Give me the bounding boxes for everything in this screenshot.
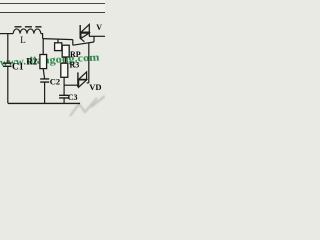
svg-text:C1: C1 [12,63,24,73]
wire VD to gate vertical [88,43,90,83]
wire top line 2 [0,12,105,14]
wire RP to R3 [65,57,67,63]
wire R2 branch vertical [42,39,44,55]
background [0,0,105,118]
wire C1 to bottom rail [7,66,9,103]
wire stub to R1 box [57,39,59,43]
svg-text:VD: VD [89,82,101,92]
diac VD triangle lower [79,80,87,87]
triac V triangle lower [81,33,89,38]
inductor L dashed core line [15,26,42,28]
wire gate loop right vertical [93,36,95,42]
wire R2 to C2 [43,69,44,79]
wire gate row horizontal [43,39,73,40]
wire C1 branch vertical upper [7,34,9,63]
triac V triangle upper [81,24,89,32]
watermark diagonal gray bottom right [70,96,105,116]
triac V gate lead [80,38,84,42]
wire gate loop horizontal [73,42,94,45]
wire VD right stub [87,82,89,84]
wire gate loop left vertical [72,40,74,46]
svg-text:R2: R2 [26,56,37,66]
diac VD triangle upper [79,72,87,80]
resistor R1 box [55,43,62,51]
wire R3 down to C3 [63,77,65,95]
resistor R2 [40,55,47,69]
triac V bar [79,25,81,39]
svg-text:C3: C3 [68,93,78,102]
diac VD bar [77,72,79,87]
svg-text:L: L [20,35,26,45]
wire jog after inductor [41,34,43,39]
resistor R3 [61,63,68,77]
watermark text green [0,51,100,69]
wire triac right to edge [89,35,105,37]
capacitor C1 [3,63,12,66]
svg-text:V: V [96,23,102,32]
wire C3 to bottom rail [63,98,65,104]
capacitor C3 [59,95,69,98]
wire C2 to bottom rail [44,82,46,103]
inductor L [13,29,41,34]
capacitor C2 [40,79,49,82]
wire left input [0,33,13,35]
potentiometer RP box [62,45,69,57]
svg-text:RP: RP [70,50,81,59]
svg-text:R3: R3 [70,61,80,70]
svg-text:C2: C2 [50,77,60,87]
triac right cathode bar extension [88,32,90,37]
wire top line 1 [0,3,105,5]
wire branch to VD [64,84,78,86]
bottom rail [8,102,80,104]
